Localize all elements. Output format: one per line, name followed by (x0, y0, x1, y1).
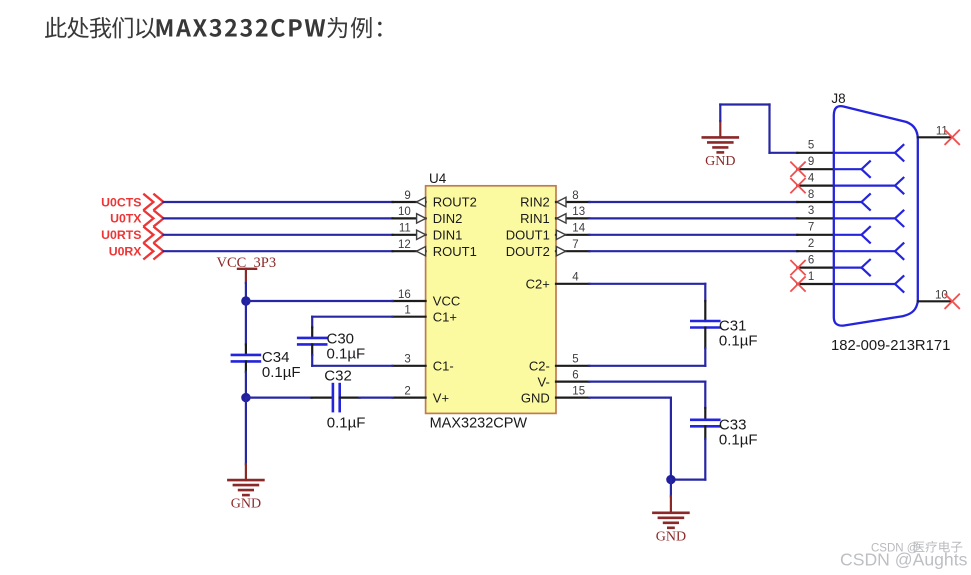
wire VCC node to U4 pin16 (246, 300, 393, 302)
J8 pin 5 contact (834, 144, 904, 161)
svg-text:16: 16 (398, 289, 411, 301)
svg-text:DOUT1: DOUT1 (506, 228, 550, 243)
wire V+ node to GND (245, 398, 247, 481)
U4 pin 14 DOUT1 (506, 223, 590, 243)
J8 pin 2 contact (834, 243, 904, 260)
label C31 (719, 317, 747, 334)
J8 pin 6 stub (797, 254, 834, 267)
wire to J8 pin5 (770, 152, 798, 154)
J8 pin 9 stub (797, 156, 834, 169)
wire U4 pin4 C2+ right (589, 283, 705, 285)
IC U4 MAX3232CPW body (426, 186, 556, 414)
J8 pin 11 stub (918, 125, 952, 137)
svg-text:8: 8 (572, 190, 578, 202)
watermark small CSDN 医疗电子 (871, 541, 962, 554)
J8 pin 3 stub (797, 205, 834, 218)
svg-text:9: 9 (808, 156, 814, 168)
value C34 0.1uF (262, 364, 301, 381)
J8 pin 5 stub (797, 140, 834, 153)
J8 pin 10 stub (918, 289, 952, 301)
watermark large CSDN @Aughts (840, 549, 968, 569)
wire RIN2-J8.8 (589, 201, 797, 203)
svg-text:0.1µF: 0.1µF (719, 333, 758, 350)
svg-text:3: 3 (404, 354, 410, 366)
svg-text:6: 6 (808, 254, 814, 266)
no-connect X on J8 pin 6 (791, 261, 805, 275)
J8 pin 7 stub (797, 222, 834, 235)
J8 pin 6 contact (834, 259, 871, 276)
wire U0RX to U4 (164, 250, 393, 252)
wire C2+ corner down (704, 284, 706, 301)
svg-text:DIN1: DIN1 (433, 228, 463, 243)
J8 pin 4 stub (797, 172, 834, 185)
svg-text:DIN2: DIN2 (433, 211, 463, 226)
svg-text:8: 8 (808, 189, 814, 201)
net label U0CTS (101, 195, 141, 209)
svg-text:15: 15 (572, 385, 585, 397)
connector J8 designator (831, 91, 845, 106)
port chevron U0RX (143, 243, 163, 260)
label C30 (327, 330, 355, 347)
J8 pin 8 stub (797, 189, 834, 202)
U4 pin 16 VCC (393, 289, 461, 309)
svg-text:1: 1 (808, 271, 814, 283)
capacitor C31 (691, 301, 719, 348)
value C32 0.1uF (327, 414, 366, 431)
svg-text:1: 1 (404, 305, 410, 317)
U4 pin 7 DOUT2 (506, 239, 590, 259)
svg-text:2: 2 (404, 385, 410, 397)
capacitor C34 (232, 345, 260, 373)
svg-text:C1-: C1- (433, 359, 454, 374)
title text 此处我们以MAX3232CPW为例 (45, 17, 382, 39)
J8 pin 8 contact (834, 193, 871, 210)
svg-text:GND: GND (656, 529, 686, 544)
svg-text:0.1µF: 0.1µF (327, 414, 366, 431)
svg-text:J8: J8 (831, 91, 845, 106)
svg-text:12: 12 (398, 239, 411, 251)
svg-text:U4: U4 (429, 171, 447, 186)
label C33 (719, 416, 747, 433)
U4 pin 12 ROUT1 (393, 239, 477, 259)
svg-text:GND: GND (705, 154, 735, 169)
net label U0TX (110, 212, 142, 226)
svg-text:182-009-213R171: 182-009-213R171 (831, 338, 950, 354)
U4 pin 5 C2- (529, 354, 590, 374)
svg-text:14: 14 (572, 223, 585, 235)
wire RIN1-J8.3 (589, 217, 797, 219)
wire U0CTS to U4 (164, 201, 393, 203)
U4 pin 10 DIN2 (393, 206, 463, 226)
wire top GND up (719, 105, 721, 122)
capacitor C32 (312, 384, 360, 411)
wire U4 pin1 C1+ left (312, 316, 392, 318)
svg-text:U0RX: U0RX (109, 245, 143, 259)
svg-text:U0TX: U0TX (110, 212, 142, 226)
svg-text:C1+: C1+ (433, 309, 457, 324)
port chevron U0CTS (143, 194, 163, 211)
J8 pin 4 contact (834, 177, 904, 194)
wire C1- to U4 pin3 (312, 365, 392, 367)
wire V- corner down (704, 382, 706, 408)
svg-text:V+: V+ (433, 390, 449, 405)
svg-text:C32: C32 (324, 367, 352, 384)
no-connect X on J8 pin 10 (945, 294, 959, 308)
J8 pin 1 contact (834, 275, 904, 292)
U4 pin 8 RIN2 (520, 190, 589, 210)
svg-text:ROUT1: ROUT1 (433, 244, 477, 259)
value C30 0.1uF (327, 346, 366, 363)
capacitor C30 (298, 327, 326, 355)
svg-text:5: 5 (808, 140, 814, 152)
svg-text:9: 9 (404, 190, 410, 202)
svg-text:DOUT2: DOUT2 (506, 244, 550, 259)
connector J8 body (834, 106, 918, 325)
wire pin15 down to GND node (670, 398, 672, 480)
svg-text:C2-: C2- (529, 359, 550, 374)
U4 part value MAX3232CPW (430, 416, 528, 432)
U4 pin 15 GND (521, 385, 589, 405)
svg-text:CSDN @Aughts: CSDN @Aughts (840, 549, 968, 569)
svg-text:ROUT2: ROUT2 (433, 195, 477, 210)
wire C34 to V+ node (245, 372, 247, 398)
svg-text:2: 2 (808, 238, 814, 250)
svg-text:7: 7 (808, 222, 814, 234)
svg-text:11: 11 (399, 223, 411, 235)
U4 pin 6 V- (538, 369, 590, 389)
U4 pin 13 RIN1 (520, 206, 589, 226)
wire DOUT1-J8.7 (589, 234, 797, 236)
capacitor C33 (691, 408, 719, 439)
svg-text:MAX3232CPW: MAX3232CPW (430, 416, 528, 432)
wire C31 down to C2- row (704, 348, 706, 366)
svg-text:V-: V- (538, 374, 550, 389)
wire C32 to U4 pin2 (360, 397, 393, 399)
U4 designator (429, 171, 447, 186)
svg-text:6: 6 (572, 369, 578, 381)
svg-text:0.1µF: 0.1µF (327, 346, 366, 363)
svg-text:GND: GND (521, 390, 550, 405)
net label U0RTS (101, 228, 141, 242)
svg-text:13: 13 (572, 206, 585, 218)
label C32 (324, 367, 352, 384)
wire top GND horizontal (720, 103, 769, 105)
svg-text:0.1µF: 0.1µF (262, 364, 301, 381)
U4 pin 9 ROUT2 (393, 190, 477, 210)
no-connect X on J8 pin 9 (791, 162, 805, 176)
svg-text:3: 3 (808, 205, 814, 217)
svg-text:C2+: C2+ (526, 277, 550, 292)
svg-text:0.1µF: 0.1µF (719, 432, 758, 449)
svg-text:RIN1: RIN1 (520, 211, 550, 226)
wire C30 to C1- row (311, 355, 313, 366)
U4 pin 11 DIN1 (393, 223, 463, 243)
label C34 (262, 349, 290, 366)
wire C33 to GND node (671, 479, 705, 481)
svg-text:RIN2: RIN2 (520, 195, 550, 210)
value C33 0.1uF (719, 432, 758, 449)
node GND junction (666, 475, 675, 484)
no-connect X on J8 pin 1 (791, 277, 805, 291)
J8 pin 3 contact (834, 210, 904, 227)
net label U0RX (109, 245, 143, 259)
port chevron U0RTS (143, 227, 163, 244)
node V+ junction (241, 393, 250, 402)
svg-text:5: 5 (572, 354, 578, 366)
no-connect X on J8 pin 11 (945, 130, 959, 144)
wire VCC_3P3 to node (245, 283, 247, 301)
wire U4 pin15 GND right (589, 397, 671, 399)
J8 pin 2 stub (797, 238, 834, 251)
wire U0RTS to U4 (164, 234, 393, 236)
svg-text:7: 7 (572, 239, 578, 251)
J8 part number (831, 338, 950, 354)
U4 pin 3 C1- (393, 354, 454, 374)
wire down to J8 pin5 row (768, 105, 770, 153)
wire DOUT2-J8.2 (589, 250, 797, 252)
ground GND top (703, 121, 738, 169)
node VCC junction (241, 296, 250, 305)
power port VCC_3P3 (216, 255, 276, 283)
svg-text:4: 4 (808, 172, 815, 184)
ground GND left (228, 480, 263, 512)
svg-text:VCC: VCC (433, 294, 460, 309)
svg-text:4: 4 (572, 272, 579, 284)
svg-text:GND: GND (231, 497, 261, 512)
svg-text:U0RTS: U0RTS (101, 228, 141, 242)
ground GND bottom right (653, 513, 688, 545)
U4 pin 4 C2+ (526, 272, 590, 292)
wire C1+ corner down (311, 317, 313, 328)
wire C2- to U4 pin5 (589, 365, 705, 367)
U4 pin 1 C1+ (393, 305, 457, 325)
wire V+ node to C32 (246, 397, 312, 399)
J8 pin 7 contact (834, 226, 871, 243)
no-connect X on J8 pin 4 (791, 179, 805, 193)
wire GND node down (670, 480, 672, 513)
wire U4 pin6 V- right (589, 381, 705, 383)
svg-text:10: 10 (398, 206, 411, 218)
wire C33 down (704, 439, 706, 480)
wire VCC node down to C34 (245, 301, 247, 345)
svg-text:U0CTS: U0CTS (101, 195, 141, 209)
wire U0TX to U4 (164, 217, 393, 219)
port chevron U0TX (143, 210, 163, 227)
U4 pin 2 V+ (393, 385, 449, 405)
value C31 0.1uF (719, 333, 758, 350)
J8 pin 1 stub (797, 271, 834, 284)
J8 pin 9 contact (834, 161, 871, 178)
